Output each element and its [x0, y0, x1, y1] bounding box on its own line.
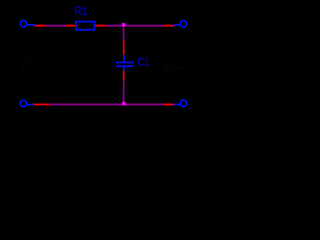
wire vertical lower purple segment [123, 81, 125, 104]
node junction top [122, 23, 125, 26]
wire vertical upper purple segment [123, 26, 125, 41]
capacitor C1 bottom plate [116, 65, 134, 67]
capacitor C1 top pin (red) [123, 41, 125, 55]
wire top-left purple segment [45, 25, 65, 27]
resistor R1 right pin (red) [95, 25, 105, 27]
capacitor C1 top stub [123, 55, 125, 62]
resistor R1 left pin (red) [65, 25, 75, 27]
capacitor C1 top plate [116, 62, 134, 64]
terminal J4 (bottom-right port) [174, 100, 187, 106]
wire bottom purple segment [49, 104, 163, 106]
capacitor C1 bottom stub [123, 67, 125, 71]
terminal J2 (top-right output port) [174, 21, 187, 27]
faint watermark right [163, 61, 173, 71]
terminal J1 (top-left input port) [20, 21, 35, 27]
svg-text:R1: R1 [74, 4, 88, 18]
terminal J3 pin (red) [33, 104, 49, 106]
terminal J3 (bottom-left port) [20, 100, 33, 106]
faint watermark left [7, 59, 34, 74]
wire top-right purple segment [105, 25, 163, 27]
node junction bottom [122, 102, 125, 105]
terminal J2 pin (red) [163, 25, 174, 27]
svg-text:C1: C1 [137, 55, 150, 69]
capacitor C1 bottom pin (red) [123, 71, 125, 82]
resistor R1 body [76, 22, 95, 30]
terminal J1 pin (red) [35, 25, 46, 27]
terminal J4 pin (red) [163, 104, 175, 106]
